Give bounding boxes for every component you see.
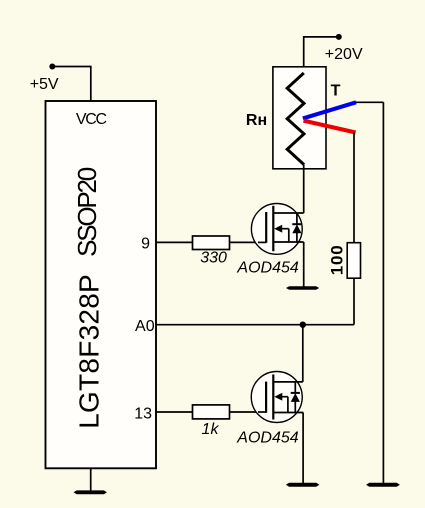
svg-text:T: T [331, 82, 341, 99]
+5V terminal dot [49, 64, 55, 70]
svg-text:SSOP20: SSOP20 [72, 167, 102, 257]
IC U1 LGT8F328P body [46, 101, 157, 468]
wire blue lead to right rail [356, 101, 384, 103]
svg-text:13: 13 [134, 405, 152, 422]
wire RH to Q1 drain [303, 165, 305, 214]
svg-text:AOD454: AOD454 [236, 259, 298, 276]
svg-text:AOD454: AOD454 [236, 430, 298, 447]
ground right rail [366, 483, 400, 487]
resistor R2 100 [347, 243, 360, 279]
svg-text:330: 330 [200, 250, 227, 267]
svg-text:Rн: Rн [246, 112, 267, 129]
resistor R3 1k [193, 405, 230, 419]
svg-text:VCC: VCC [76, 111, 107, 128]
wire A0 net [156, 324, 354, 326]
svg-text:9: 9 [141, 236, 150, 253]
svg-text:100: 100 [328, 245, 347, 276]
wire A0 junction to Q2 drain [302, 325, 304, 382]
+20V terminal dot [336, 34, 342, 40]
svg-text:LGT8F328P: LGT8F328P [74, 274, 105, 429]
wire red lead down to R2 [353, 132, 355, 242]
wire +20V to RH [304, 37, 339, 73]
wire pin 9 to R1 [156, 241, 193, 243]
wire R1 to Q1 gate [230, 241, 267, 243]
svg-text:1k: 1k [202, 421, 220, 438]
transistor Q1 AOD454 [251, 204, 303, 255]
wire +5V to VCC pin [52, 67, 91, 103]
wire Q1 source to ground [303, 242, 305, 288]
svg-text:+20V: +20V [325, 46, 363, 63]
transistor Q2 AOD454 [251, 372, 303, 423]
junction dot A0 / Q2 drain [300, 322, 306, 328]
resistor R1 330 [193, 236, 230, 250]
ground Q2 [286, 483, 320, 487]
right rail wire [382, 102, 384, 483]
svg-text:A0: A0 [135, 318, 155, 335]
RH zigzag element [287, 73, 304, 165]
thermocouple red lead [304, 121, 356, 133]
wire R3 to Q2 gate [230, 411, 267, 413]
ground IC [74, 490, 107, 494]
wire pin 13 to R3 [156, 411, 193, 413]
wire Q2 source to ground [302, 413, 304, 485]
wire IC ground [90, 469, 92, 492]
svg-text:+5V: +5V [30, 76, 59, 93]
wire R2 to A0 net [353, 278, 355, 325]
ground Q1 [286, 286, 319, 290]
resistor RH heater box [273, 67, 326, 169]
thermocouple blue lead [303, 102, 356, 118]
